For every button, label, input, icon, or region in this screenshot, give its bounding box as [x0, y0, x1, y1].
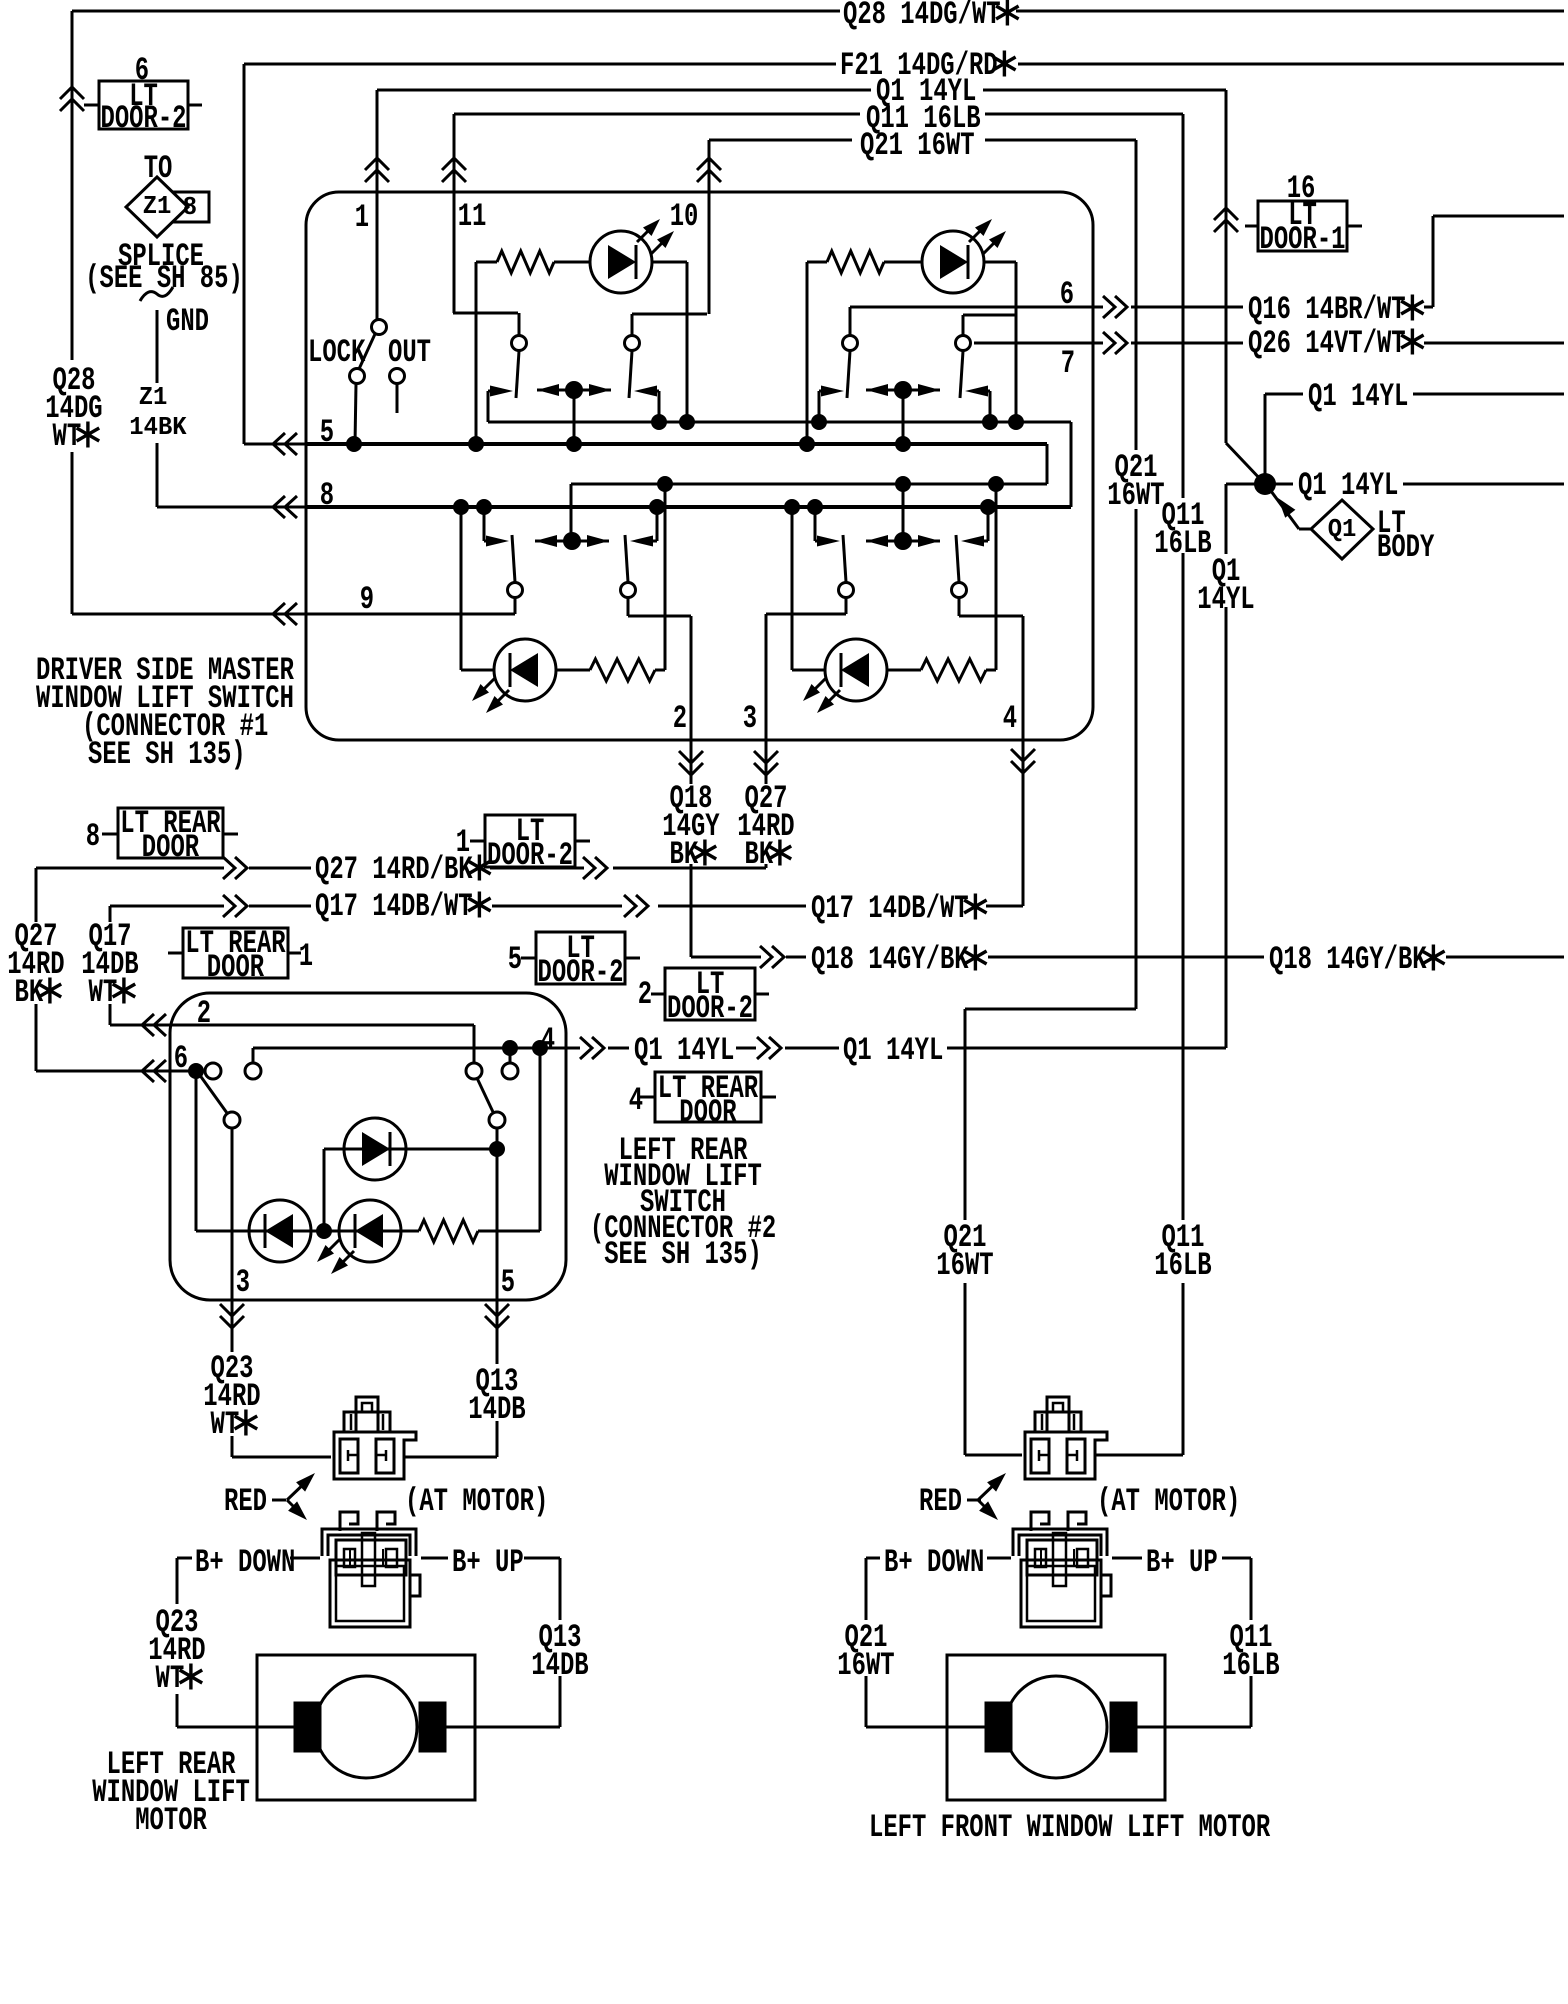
svg-text:DOOR-2: DOOR-2: [667, 990, 753, 1027]
svg-text:Z1: Z1: [143, 191, 172, 221]
svg-text:Q17 14DB/WT: Q17 14DB/WT: [811, 890, 969, 927]
svg-text:1: 1: [456, 824, 470, 861]
svg-text:1: 1: [299, 938, 313, 975]
svg-text:SEE SH 135): SEE SH 135): [88, 736, 246, 773]
svg-text:Q21 16WT: Q21 16WT: [860, 127, 975, 164]
svg-text:Q1 14YL: Q1 14YL: [1308, 378, 1408, 415]
svg-text:4: 4: [1003, 700, 1017, 737]
svg-text:Q1 14YL: Q1 14YL: [634, 1032, 734, 1069]
svg-text:MOTOR: MOTOR: [135, 1802, 207, 1839]
svg-text:Q17 14DB/WT: Q17 14DB/WT: [315, 888, 473, 925]
svg-text:11: 11: [458, 198, 487, 235]
svg-text:OUT: OUT: [388, 334, 431, 371]
svg-text:(AT MOTOR): (AT MOTOR): [405, 1483, 548, 1520]
svg-text:16LB: 16LB: [1154, 1247, 1211, 1284]
svg-text:2: 2: [673, 700, 687, 737]
svg-text:16LB: 16LB: [1222, 1647, 1279, 1684]
svg-text:LEFT FRONT WINDOW LIFT MOTOR: LEFT FRONT WINDOW LIFT MOTOR: [869, 1809, 1271, 1846]
svg-text:WT: WT: [211, 1406, 240, 1443]
svg-text:9: 9: [360, 581, 374, 618]
svg-text:Q28 14DG/WT: Q28 14DG/WT: [843, 0, 1001, 33]
svg-text:7: 7: [1061, 345, 1075, 382]
svg-text:Q26 14VT/WT: Q26 14VT/WT: [1248, 325, 1406, 362]
svg-text:3: 3: [236, 1264, 250, 1301]
svg-text:10: 10: [670, 198, 699, 235]
svg-text:1: 1: [355, 199, 369, 236]
svg-text:Q27 14RD/BK: Q27 14RD/BK: [315, 851, 473, 888]
svg-text:Q18 14GY/BK: Q18 14GY/BK: [1269, 941, 1427, 978]
svg-text:WT: WT: [156, 1660, 185, 1697]
svg-text:WT: WT: [53, 418, 82, 455]
svg-text:4: 4: [629, 1082, 643, 1119]
svg-text:DOOR-2: DOOR-2: [538, 954, 624, 991]
svg-text:BODY: BODY: [1377, 529, 1435, 566]
svg-text:DOOR-2: DOOR-2: [487, 837, 573, 874]
svg-text:5: 5: [501, 1264, 515, 1301]
svg-text:Z1: Z1: [139, 382, 168, 412]
svg-text:5: 5: [508, 941, 522, 978]
svg-text:LOCK: LOCK: [308, 334, 366, 371]
svg-text:16WT: 16WT: [1107, 477, 1164, 514]
svg-text:BK: BK: [15, 974, 44, 1011]
svg-text:(SEE SH 85): (SEE SH 85): [85, 260, 243, 297]
svg-text:Q1 14YL: Q1 14YL: [843, 1032, 943, 1069]
svg-text:8: 8: [183, 192, 197, 222]
svg-text:3: 3: [743, 700, 757, 737]
svg-text:14DB: 14DB: [531, 1647, 588, 1684]
svg-text:DOOR: DOOR: [142, 829, 200, 866]
svg-text:14BK: 14BK: [129, 412, 187, 442]
svg-text:16WT: 16WT: [837, 1647, 894, 1684]
svg-text:DOOR-1: DOOR-1: [1260, 221, 1346, 258]
svg-text:Q18 14GY/BK: Q18 14GY/BK: [811, 941, 969, 978]
svg-text:DOOR: DOOR: [679, 1094, 737, 1131]
svg-text:DOOR-2: DOOR-2: [101, 100, 187, 137]
svg-text:RED: RED: [224, 1483, 267, 1520]
svg-text:GND: GND: [166, 303, 209, 340]
svg-text:B+ UP: B+ UP: [1146, 1544, 1218, 1581]
svg-text:WT: WT: [89, 974, 118, 1011]
svg-text:B+ DOWN: B+ DOWN: [195, 1544, 295, 1581]
svg-text:8: 8: [86, 818, 100, 855]
svg-text:SEE SH 135): SEE SH 135): [604, 1236, 762, 1273]
svg-text:2: 2: [638, 976, 652, 1013]
svg-text:(AT MOTOR): (AT MOTOR): [1097, 1483, 1240, 1520]
svg-text:B+ UP: B+ UP: [452, 1544, 524, 1581]
svg-text:RED: RED: [919, 1483, 962, 1520]
svg-text:DOOR: DOOR: [207, 949, 265, 986]
svg-text:B+ DOWN: B+ DOWN: [884, 1544, 984, 1581]
svg-text:6: 6: [174, 1040, 188, 1077]
svg-text:Q16 14BR/WT: Q16 14BR/WT: [1248, 291, 1406, 328]
svg-text:Q1: Q1: [1328, 514, 1357, 544]
svg-text:Q1 14YL: Q1 14YL: [1298, 467, 1398, 504]
svg-text:16WT: 16WT: [936, 1247, 993, 1284]
